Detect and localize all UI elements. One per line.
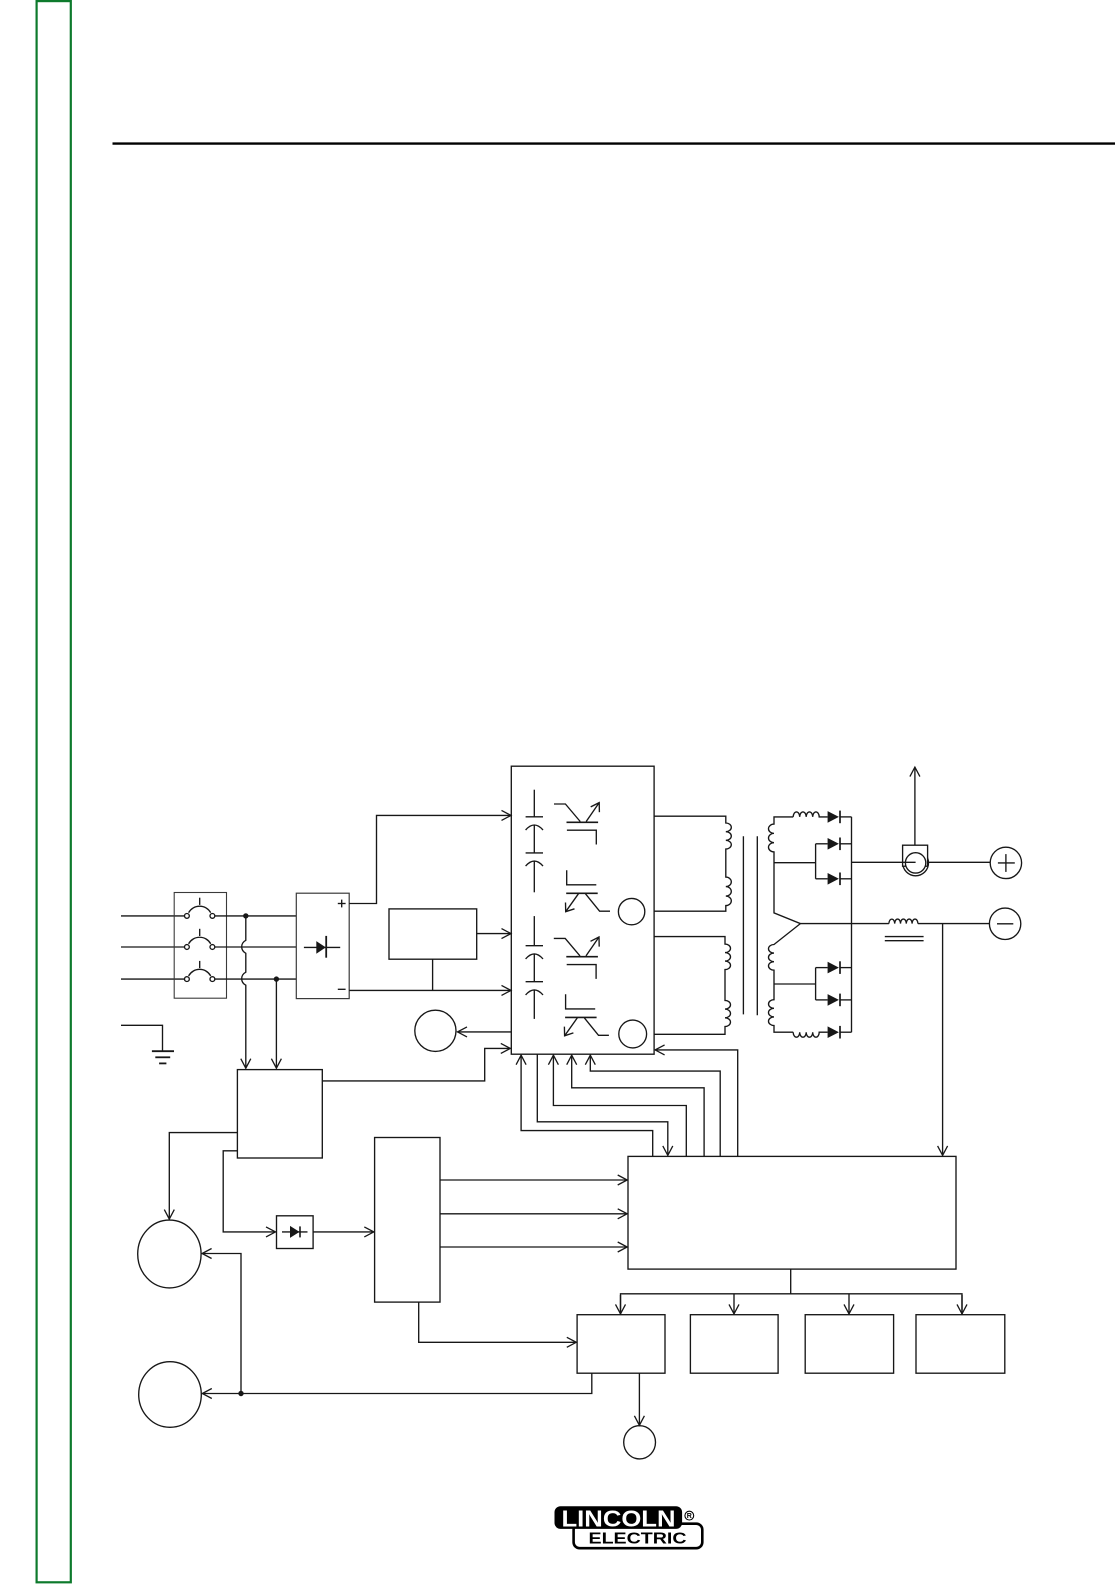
wire inverter to thermostat <box>458 1031 512 1033</box>
transformer secondary winding <box>768 817 800 1032</box>
gate drive wire 2 <box>553 1055 686 1156</box>
output box 2 <box>690 1315 778 1374</box>
gate drive wire 3 <box>572 1055 704 1156</box>
transformer core <box>743 836 757 1015</box>
secondary tap wire upper <box>774 844 828 879</box>
distribution wire <box>621 1294 963 1314</box>
remote output box 1 <box>577 1315 665 1374</box>
wire input phase L3 <box>121 978 185 980</box>
+ output terminal <box>990 847 1021 878</box>
IGBT Q3 <box>554 937 599 979</box>
inverter module box <box>511 766 654 1054</box>
aux motor circle 2 <box>139 1362 202 1428</box>
node J3 <box>238 1391 243 1396</box>
wire input phase L2 <box>121 946 185 948</box>
svg-text:LINCOLN: LINCOLN <box>562 1505 676 1531</box>
gate drive wire 4 <box>590 1055 720 1156</box>
center tap wire <box>800 923 889 925</box>
wire L2 to rectifier <box>215 946 296 948</box>
capacitor C3 <box>526 916 543 959</box>
switch S1 pole 2 <box>185 929 215 950</box>
wire - feedback to control <box>942 924 944 1156</box>
sensor output arrow <box>914 767 916 845</box>
rectifier + terminal label <box>338 900 346 908</box>
output diode D4 <box>828 873 852 886</box>
primary node circle 2 <box>619 1020 647 1048</box>
output box 3 <box>805 1315 893 1374</box>
wire L3 to rectifier <box>215 978 296 980</box>
output choke <box>885 919 924 941</box>
output diode D3 <box>828 838 852 851</box>
pwm output wire 1 <box>440 1179 627 1181</box>
wire L1 to rectifier <box>215 915 296 917</box>
drop arrow 2 <box>733 1294 735 1314</box>
node J1 <box>243 913 248 918</box>
rectifier bridge box <box>296 893 349 998</box>
wire aux board to diode D8 <box>223 1151 275 1232</box>
drop arrow 4 <box>961 1295 963 1314</box>
wire aux board to inverter <box>322 1048 510 1081</box>
svg-text:ELECTRIC: ELECTRIC <box>589 1530 687 1547</box>
switch S1 pole 1 <box>185 898 215 919</box>
wire control to inverter right edge <box>655 1050 738 1157</box>
ground symbol <box>121 1025 174 1063</box>
pwm board box <box>375 1138 440 1303</box>
wire sensor to + terminal <box>928 861 991 863</box>
feedback wire inverter to control <box>537 1054 668 1155</box>
capacitor C2 <box>526 825 543 892</box>
switch S1 box <box>174 893 226 999</box>
pwm output wire 2 <box>440 1213 627 1215</box>
svg-text:R: R <box>687 1513 692 1520</box>
wire rectifier + to inverter <box>349 815 511 903</box>
drop arrow 1 <box>620 1295 622 1314</box>
wire box1 to circle 3 <box>638 1373 640 1425</box>
rectifier - terminal label <box>338 988 346 990</box>
transformer primary winding 1 <box>654 816 731 911</box>
rectifier diode symbol <box>304 936 340 958</box>
thermostat circle <box>415 1010 456 1051</box>
output diode D7 <box>828 1026 852 1039</box>
IGBT Q4 <box>564 994 609 1036</box>
wire choke to - terminal <box>918 923 990 925</box>
wire junction to fan <box>202 1254 241 1394</box>
output diode D5 <box>828 961 852 974</box>
fan motor circle <box>138 1220 201 1288</box>
output diode D2 <box>828 811 852 824</box>
secondary tap wire lower <box>774 968 828 1000</box>
- output terminal <box>989 908 1020 939</box>
drop arrow 3 <box>848 1294 850 1314</box>
capacitor C1 <box>526 790 543 830</box>
IGBT Q1 <box>554 803 599 845</box>
node J2 <box>274 976 279 981</box>
top horizontal rule <box>113 142 1115 144</box>
IGBT Q2 <box>566 870 611 912</box>
wire J2 to aux board <box>275 979 277 1068</box>
precharge board box <box>389 909 477 959</box>
wire precharge to inverter <box>477 933 511 935</box>
output box 4 <box>916 1315 1005 1374</box>
pwm output wire 3 <box>440 1246 627 1248</box>
gate drive wire 1 <box>521 1055 653 1156</box>
control board box <box>628 1156 956 1269</box>
wire bus to sensor <box>852 861 916 863</box>
output bus <box>851 817 853 1032</box>
switch S1 pole 3 <box>185 961 215 982</box>
wire J1 to aux board (hops over L2,L3) <box>242 916 246 1068</box>
saturable reactor bottom <box>793 1032 827 1037</box>
aux input board box <box>237 1070 322 1158</box>
wire aux board to fan <box>169 1133 237 1220</box>
wire precharge to - bus <box>432 959 434 990</box>
wire D8 to pwm board <box>313 1231 374 1233</box>
output diode D6 <box>828 994 852 1007</box>
capacitor C4 <box>526 954 543 1019</box>
primary node circle 1 <box>618 898 644 924</box>
green sidebar frame <box>37 1 71 1582</box>
current sensor <box>903 845 929 876</box>
wire remote box to circle 2 <box>202 1373 592 1393</box>
diode D8 box <box>277 1216 314 1249</box>
saturable reactor top <box>793 812 827 817</box>
Lincoln Electric logo <box>555 1505 703 1548</box>
wire input phase L1 <box>121 915 185 917</box>
control bottom stem <box>790 1269 792 1294</box>
pwm bottom wire to remote box <box>419 1302 577 1342</box>
remote circle 3 <box>624 1426 656 1459</box>
transformer primary winding 2 <box>654 937 730 1035</box>
wire rectifier - to inverter <box>349 989 511 991</box>
